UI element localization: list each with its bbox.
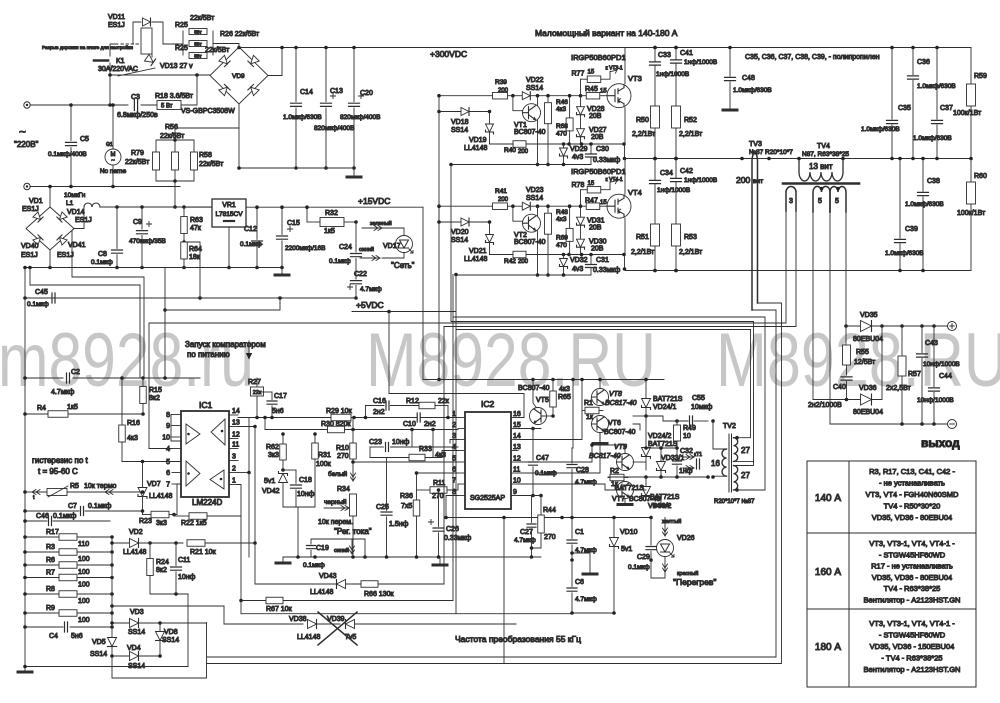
svg-text:SG2525AP: SG2525AP xyxy=(470,495,505,502)
svg-text:1нф/1000В: 1нф/1000В xyxy=(657,187,690,194)
svg-text:SS14: SS14 xyxy=(128,629,145,636)
svg-text:4.7мкф: 4.7мкф xyxy=(360,286,382,293)
svg-text:1к5: 1к5 xyxy=(324,228,335,235)
resistor R21 xyxy=(187,540,205,547)
svg-text:IRGP50B60PD1: IRGP50B60PD1 xyxy=(571,53,626,62)
svg-text:12/5Вт: 12/5Вт xyxy=(854,359,876,366)
zener VD29/32 xyxy=(560,148,568,158)
svg-text:1.0мкф/630В: 1.0мкф/630В xyxy=(917,83,956,90)
svg-text:R1: R1 xyxy=(584,400,593,407)
table row divider 1 xyxy=(807,532,976,534)
svg-text:R42: R42 xyxy=(504,258,516,265)
resistor R62 xyxy=(282,434,284,444)
svg-text:SS14: SS14 xyxy=(526,195,543,202)
svg-text:C41: C41 xyxy=(680,50,693,57)
small bridge diode xyxy=(33,235,43,245)
resistor R33 xyxy=(409,454,425,461)
resistor R17 xyxy=(59,534,77,541)
svg-text:R69: R69 xyxy=(556,235,568,242)
resistor R79 xyxy=(153,152,160,170)
IC1 pin 6 xyxy=(172,472,181,474)
svg-text:VD38: VD38 xyxy=(289,616,307,623)
svg-text:5н6: 5н6 xyxy=(71,633,83,640)
svg-text:10: 10 xyxy=(513,478,521,485)
svg-text:180 А: 180 А xyxy=(815,642,841,653)
IC2 pin 7 xyxy=(458,483,465,485)
yellow arrow xyxy=(663,518,668,537)
resistor R6 xyxy=(59,562,77,569)
resistor R39/R41 xyxy=(493,203,508,210)
wire r56 bottom xyxy=(156,180,194,182)
svg-text:SS14: SS14 xyxy=(90,651,107,658)
svg-text:ES1J: ES1J xyxy=(108,22,125,29)
svg-text:2,2/1Вт: 2,2/1Вт xyxy=(679,249,703,256)
resistor R49 xyxy=(676,421,678,425)
transistor VT5 xyxy=(530,408,547,425)
tv2 wire up a xyxy=(750,330,752,438)
svg-text:13 вит: 13 вит xyxy=(809,162,833,171)
vt6 wires xyxy=(633,415,646,417)
gate loop stage1 xyxy=(451,165,754,322)
winding3 return xyxy=(444,211,796,584)
capacitor C5 xyxy=(66,142,77,145)
resistor R3 xyxy=(59,549,77,556)
capacitor C24 xyxy=(355,222,357,252)
svg-text:VT3: VT3 xyxy=(628,74,642,83)
wire to relay xyxy=(109,75,111,105)
svg-text:R66 130к: R66 130к xyxy=(364,591,394,598)
svg-text:18к: 18к xyxy=(189,254,201,261)
svg-text:7х5: 7х5 xyxy=(401,503,412,510)
svg-text:ES1J: ES1J xyxy=(21,252,38,259)
svg-text:VD22: VD22 xyxy=(526,77,544,84)
svg-text:100: 100 xyxy=(78,556,90,563)
svg-text:30A/220VAC: 30A/220VAC xyxy=(98,66,138,73)
svg-text:+300VDC: +300VDC xyxy=(430,49,467,59)
svg-text:IC2: IC2 xyxy=(481,399,495,409)
IC1 op-amp LM224D xyxy=(181,411,229,497)
svg-text:R68: R68 xyxy=(556,123,568,130)
capacitor C47 xyxy=(532,429,534,461)
capacitor C48 xyxy=(729,48,731,77)
diode VD11 loop xyxy=(133,22,141,44)
vt6 gnd xyxy=(599,433,601,443)
IC2 pin 4 xyxy=(458,450,465,452)
vr1 gnd wire xyxy=(228,227,230,268)
thermistor R5 xyxy=(47,489,67,496)
svg-text:SS14: SS14 xyxy=(526,85,543,92)
TV2 core xyxy=(729,434,732,492)
transistor VT9 xyxy=(617,454,634,471)
IGBT VT3/VT4 xyxy=(607,84,631,108)
svg-text:1: 1 xyxy=(232,478,236,485)
svg-text:C43: C43 xyxy=(925,340,938,347)
diode VD33/1 xyxy=(657,462,666,473)
plus terminal xyxy=(948,322,957,331)
c2 right wire xyxy=(73,377,200,379)
vt9 e wire xyxy=(633,461,646,463)
row 606 xyxy=(112,605,224,607)
svg-text:110: 110 xyxy=(78,541,89,548)
svg-text:140 А: 140 А xyxy=(815,493,841,504)
fb loop wires xyxy=(366,405,385,407)
r30 left link xyxy=(264,418,266,430)
svg-text:4к3: 4к3 xyxy=(559,386,570,393)
svg-text:C8: C8 xyxy=(98,251,107,258)
svg-text:Вентилятор - A2123HST.GN: Вентилятор - A2123HST.GN xyxy=(864,596,961,605)
IC2 pin 13 xyxy=(511,450,518,452)
resistor R63 xyxy=(183,207,185,216)
svg-text:C2: C2 xyxy=(71,369,80,376)
green arrow xyxy=(362,226,382,231)
svg-text:BC807-40: BC807-40 xyxy=(514,129,546,136)
svg-text:4.7мкф: 4.7мкф xyxy=(514,537,536,544)
svg-text:47к: 47к xyxy=(190,225,202,232)
capacitor C46 xyxy=(49,517,52,526)
svg-text:0.1мкф/400В: 0.1мкф/400В xyxy=(48,151,87,158)
svg-text:VT5: VT5 xyxy=(536,397,549,404)
svg-text:R7: R7 xyxy=(46,570,55,577)
svg-text:N87, R63*38*25: N87, R63*38*25 xyxy=(802,151,849,158)
белый arrow xyxy=(351,463,356,481)
resistor R10 xyxy=(352,418,354,444)
resistor R68/R69 xyxy=(569,206,571,228)
+5vdc row xyxy=(352,311,456,313)
svg-text:1.0мкф/630В: 1.0мкф/630В xyxy=(283,114,322,121)
svg-text:C31: C31 xyxy=(596,257,609,264)
svg-text:R67 10к: R67 10к xyxy=(266,606,293,613)
svg-text:VT3, VT3-1, VT4, VT4-1 -: VT3, VT3-1, VT4, VT4-1 - xyxy=(869,619,955,628)
svg-text:к VT3-1: к VT3-1 xyxy=(606,66,623,72)
svg-text:BAT721S: BAT721S xyxy=(653,396,683,403)
svg-text:VT2: VT2 xyxy=(514,232,527,239)
routing wire A2 xyxy=(30,268,140,379)
wire r56 down xyxy=(174,181,176,207)
svg-text:470: 470 xyxy=(556,242,567,249)
svg-text:270: 270 xyxy=(544,534,556,541)
IC1 pin 14 xyxy=(229,414,238,416)
capacitor bank elem xyxy=(353,48,355,102)
svg-text:R39: R39 xyxy=(495,79,507,86)
svg-text:R58: R58 xyxy=(199,152,212,159)
svg-text:VD13 27 v: VD13 27 v xyxy=(160,63,193,70)
svg-text:VD23: VD23 xyxy=(526,187,544,194)
resistor R11 xyxy=(430,487,447,494)
svg-text:VD8: VD8 xyxy=(164,629,178,636)
svg-text:R23: R23 xyxy=(139,518,152,525)
svg-text:3к3: 3к3 xyxy=(156,520,167,527)
capacitor C6 xyxy=(571,560,573,586)
svg-text:C4: C4 xyxy=(49,633,58,640)
IC1 pin 10 xyxy=(172,436,181,438)
svg-text:5: 5 xyxy=(835,198,839,205)
svg-text:R26 22к/5Вт: R26 22к/5Вт xyxy=(220,31,260,38)
arrow kVT xyxy=(610,70,617,72)
ground C15 xyxy=(281,268,283,274)
led return xyxy=(651,560,665,578)
arrow down zapusk xyxy=(248,341,250,353)
svg-text:+15VDC: +15VDC xyxy=(358,196,390,206)
transistor VT1/VT2 xyxy=(523,104,541,122)
svg-text:C14: C14 xyxy=(300,89,313,96)
svg-text:7: 7 xyxy=(166,482,170,489)
IGBT VT3/VT4 xyxy=(607,194,631,218)
pot R34 xyxy=(350,494,357,516)
diode VD35 xyxy=(861,321,872,332)
svg-text:R21 10к: R21 10к xyxy=(190,549,217,556)
transformer TV3 loop xyxy=(752,153,758,310)
capacitor C43 xyxy=(921,326,923,353)
svg-text:R3, R17, C13, C41, C42 -: R3, R17, C13, C41, C42 - xyxy=(869,467,955,476)
igbt emitter xyxy=(624,218,626,254)
svg-text:BAT721S: BAT721S xyxy=(650,494,680,501)
svg-text:VT8: VT8 xyxy=(609,391,622,398)
svg-text:14: 14 xyxy=(513,433,521,440)
snubber C42+R53 xyxy=(675,159,677,179)
gnd rail 557 xyxy=(283,556,541,558)
wire bridge ac top xyxy=(49,187,51,208)
svg-text:VD24/2: VD24/2 xyxy=(648,433,671,440)
svg-text:кТ1: кТ1 xyxy=(694,452,702,458)
routing wire B2 xyxy=(165,298,280,310)
red arrow xyxy=(663,557,668,573)
diode VD2 row xyxy=(112,542,129,544)
zener VD27/30 xyxy=(577,129,585,139)
svg-text:C19: C19 xyxy=(316,545,329,552)
svg-text:C12: C12 xyxy=(244,226,257,233)
zener VD42 xyxy=(279,472,288,483)
zener VD19/21 xyxy=(486,124,494,134)
capacitor C2 xyxy=(67,373,70,383)
stage low rail xyxy=(451,164,591,166)
svg-text:100: 100 xyxy=(78,582,90,589)
TV2 sec 27a xyxy=(734,438,738,462)
svg-text:R55: R55 xyxy=(856,349,869,356)
svg-text:6: 6 xyxy=(166,470,170,477)
zener VD29/32 xyxy=(560,259,568,269)
svg-text:R32: R32 xyxy=(325,210,338,217)
resistor R44 xyxy=(540,496,542,516)
zener VD27/30 xyxy=(577,239,585,249)
svg-text:VD42: VD42 xyxy=(262,488,280,495)
svg-text:10: 10 xyxy=(162,435,170,442)
capacitor bank elem xyxy=(325,48,327,102)
diode VD4 row xyxy=(112,655,129,657)
diode VD18/20 xyxy=(461,108,469,116)
resistor R45/R47 xyxy=(586,92,600,99)
svg-text:9: 9 xyxy=(513,489,517,496)
break bar xyxy=(94,59,108,62)
svg-text:IC1: IC1 xyxy=(199,400,213,410)
svg-text:100к: 100к xyxy=(316,461,332,468)
svg-text:0.1мкф: 0.1мкф xyxy=(303,562,325,569)
ic2 right wires xyxy=(389,312,524,418)
svg-text:BC817-40: BC817-40 xyxy=(589,453,621,460)
svg-text:R34: R34 xyxy=(337,486,350,493)
svg-text:R63: R63 xyxy=(190,217,203,224)
svg-text:1к5: 1к5 xyxy=(67,404,78,411)
vert x365 xyxy=(364,539,366,557)
svg-text:4.7мкф: 4.7мкф xyxy=(575,596,597,603)
relay switch contact xyxy=(118,68,155,76)
svg-text:10нф: 10нф xyxy=(297,491,315,498)
svg-text:6.8мкф/250в: 6.8мкф/250в xyxy=(117,112,158,119)
svg-text:4к3: 4к3 xyxy=(556,106,566,113)
emitter down xyxy=(537,120,539,164)
bottom gnd row xyxy=(25,666,188,668)
capacitor C22 xyxy=(351,281,362,284)
svg-text:4.7мкф: 4.7мкф xyxy=(575,479,597,486)
svg-text:1нф/1000В: 1нф/1000В xyxy=(684,177,717,184)
tv2 primary leads xyxy=(713,421,727,449)
resistor R2 xyxy=(610,474,624,481)
svg-text:TV4 - R50*30*20: TV4 - R50*30*20 xyxy=(884,502,941,511)
svg-text:R29 10к: R29 10к xyxy=(326,408,353,415)
mid rail xyxy=(625,158,972,160)
svg-text:100к/1Вт: 100к/1Вт xyxy=(953,110,982,117)
svg-text:~: ~ xyxy=(111,158,115,164)
IC2 pin 10 xyxy=(511,483,518,485)
resistor R4 xyxy=(48,411,68,418)
resistor R30 row pin2 xyxy=(265,429,328,431)
row r67 xyxy=(241,600,266,602)
wire r56 to bridge xyxy=(175,128,239,140)
svg-text:C3: C3 xyxy=(131,94,140,101)
svg-text:C40: C40 xyxy=(833,384,846,391)
svg-text:красный: красный xyxy=(677,570,698,577)
svg-text:- STGW45HF60WD: - STGW45HF60WD xyxy=(879,631,946,640)
svg-text:10нф: 10нф xyxy=(178,574,196,581)
wire r18 up xyxy=(181,75,197,105)
table row divider 2 xyxy=(807,608,976,610)
vert x249 xyxy=(248,418,250,558)
svg-text:2н2: 2н2 xyxy=(373,409,385,416)
winding end to VD35 xyxy=(845,212,847,326)
feedback row y417 xyxy=(238,417,417,419)
svg-text:0.33мкф: 0.33мкф xyxy=(593,157,620,164)
svg-text:BC817-40: BC817-40 xyxy=(605,400,637,407)
svg-text:100: 100 xyxy=(78,617,90,624)
stub k1 xyxy=(151,54,153,57)
pin1 wire xyxy=(238,485,241,614)
svg-text:C36: C36 xyxy=(917,59,930,66)
capacitor C30/31 xyxy=(586,154,597,157)
svg-text:R25: R25 xyxy=(175,45,188,52)
diode VD8 xyxy=(159,623,161,632)
capacitor C27 xyxy=(531,496,533,523)
svg-text:1.5нф: 1.5нф xyxy=(389,521,409,528)
svg-text:по питанию: по питанию xyxy=(187,350,230,359)
snubber C33+R50 xyxy=(654,48,656,62)
svg-text:5 Вт: 5 Вт xyxy=(161,104,173,110)
resistor R25a xyxy=(189,29,207,35)
svg-text:VD43: VD43 xyxy=(319,573,337,580)
input terminal N xyxy=(24,183,30,189)
diode VD3 row xyxy=(112,622,129,624)
c23 r33 left join xyxy=(369,447,371,458)
svg-text:R78: R78 xyxy=(572,182,585,189)
svg-text:C35: C35 xyxy=(898,105,911,112)
IC2 pin 3 xyxy=(458,439,465,441)
svg-text:4v3: 4v3 xyxy=(572,154,583,161)
LED VD17 xyxy=(396,236,414,254)
IC2 pin 6 xyxy=(458,472,465,474)
wire pin5 r10 xyxy=(353,461,458,463)
svg-text:VD18: VD18 xyxy=(451,119,469,126)
svg-text:16: 16 xyxy=(513,411,521,418)
out- rail xyxy=(830,423,947,425)
svg-text:R8: R8 xyxy=(46,586,55,593)
vd box right xyxy=(160,622,207,624)
svg-text:C29: C29 xyxy=(637,554,650,561)
svg-text:BAT721S: BAT721S xyxy=(615,485,645,492)
capacitor C16 xyxy=(386,401,389,410)
vd33/2 gnd xyxy=(654,504,668,507)
svg-text:R25: R25 xyxy=(175,22,188,29)
svg-text:C37: C37 xyxy=(940,105,953,112)
transistor VT7 xyxy=(617,482,634,499)
svg-text:- STGW45HF60WD: - STGW45HF60WD xyxy=(879,550,946,559)
tv3 loop down 1 xyxy=(207,310,777,657)
IC1 pin bracket 8 9 10 xyxy=(171,415,181,442)
svg-text:R22 1к5: R22 1к5 xyxy=(181,520,207,527)
svg-text:200: 200 xyxy=(736,175,750,185)
svg-text:R17 - не устанавливать: R17 - не устанавливать xyxy=(871,562,953,571)
capacitor C9 xyxy=(141,207,143,229)
svg-text:200: 200 xyxy=(498,197,509,203)
svg-text:VD4: VD4 xyxy=(127,645,141,652)
svg-text:VT3, VT3-1, VT4, VT4-1 -: VT3, VT3-1, VT4, VT4-1 - xyxy=(869,539,955,548)
svg-text:20В: 20В xyxy=(591,134,604,141)
snubber C34+R51 xyxy=(654,159,656,181)
svg-text:VD35: VD35 xyxy=(860,312,878,319)
ladder right rail xyxy=(111,537,113,637)
svg-text:0.1мкф: 0.1мкф xyxy=(329,258,351,265)
svg-text:VT3, VT4 - FGH40N60SMD: VT3, VT4 - FGH40N60SMD xyxy=(866,490,960,499)
capacitor C7 xyxy=(81,507,84,516)
igbt emitter xyxy=(624,108,626,144)
wire r63 tap xyxy=(184,242,200,298)
capacitor C10 inline xyxy=(417,413,420,422)
svg-text:VD20: VD20 xyxy=(451,229,469,236)
svg-text:10мкф: 10мкф xyxy=(691,404,713,411)
svg-text:VD2: VD2 xyxy=(129,529,143,536)
resistor R64 xyxy=(181,242,188,259)
transistor VT8 xyxy=(592,389,609,406)
svg-text:No name: No name xyxy=(100,168,127,175)
svg-text:5v1: 5v1 xyxy=(621,546,632,553)
svg-text:10нф/1000В: 10нф/1000В xyxy=(923,361,960,368)
bridge diode xyxy=(219,55,230,66)
svg-text:2200мкф/16В: 2200мкф/16В xyxy=(285,245,326,252)
IC1 pin 13 xyxy=(229,426,238,428)
svg-text:10нф/1000В: 10нф/1000В xyxy=(917,397,954,404)
transistor VT6 xyxy=(592,416,609,433)
left gnd rail xyxy=(24,268,26,671)
svg-text:C39: C39 xyxy=(905,226,918,233)
mid rail drop xyxy=(624,144,626,159)
svg-text:22к/5Вт: 22к/5Вт xyxy=(199,161,224,168)
svg-text:IRGP50B60PD1: IRGP50B60PD1 xyxy=(571,167,626,176)
rail 517 xyxy=(446,517,651,519)
svg-text:C38: C38 xyxy=(927,178,940,185)
wire to bridge xyxy=(110,74,210,76)
routing wire B xyxy=(164,268,166,379)
row 613b xyxy=(241,613,572,615)
svg-text:1.0мкф/630В: 1.0мкф/630В xyxy=(885,250,924,257)
svg-text:470: 470 xyxy=(556,131,567,138)
svg-text:VD40: VD40 xyxy=(21,243,39,250)
